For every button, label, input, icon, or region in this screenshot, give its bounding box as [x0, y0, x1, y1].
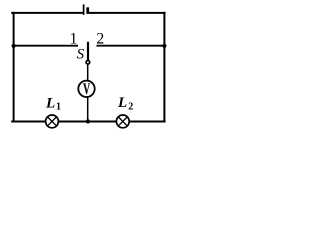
wire: right vertical	[163, 12, 165, 123]
battery B1: long plate	[83, 4, 85, 15]
switch S: pivot ring	[86, 61, 90, 65]
lamp L1: circle body	[46, 115, 59, 128]
lamp L2: cross stroke 2	[118, 117, 127, 126]
svg-text:1: 1	[70, 31, 78, 48]
lamp L2: circle body	[116, 115, 129, 128]
svg-text:L: L	[45, 96, 55, 112]
wire: middle-left to switch contact 1	[14, 45, 78, 47]
wire: voltmeter down to bottom wire	[87, 97, 89, 122]
node: junction dot right of middle wire	[162, 44, 166, 48]
voltmeter U1: circle body	[78, 81, 94, 97]
svg-text:2: 2	[96, 31, 104, 48]
wire: middle-right from switch contact 2	[97, 45, 165, 47]
svg-text:1: 1	[56, 102, 61, 113]
svg-text:2: 2	[128, 101, 133, 112]
svg-text:S: S	[77, 47, 85, 63]
node: junction dot at voltmeter branch on bottom wire	[86, 119, 90, 123]
lamp L1: cross stroke 1	[48, 117, 57, 126]
lamp L1: cross stroke 2	[48, 117, 57, 126]
svg-text:V: V	[83, 79, 90, 97]
node: junction dot left of middle wire	[12, 44, 16, 48]
wire: top-left from corner to battery	[11, 12, 83, 14]
wire: switch pivot down to voltmeter	[87, 64, 89, 81]
wire: top-right from battery to corner	[88, 12, 165, 14]
lamp L2: cross stroke 1	[118, 117, 127, 126]
svg-text:L: L	[117, 95, 127, 111]
wire: left vertical	[13, 12, 15, 123]
switch S: lever blade	[87, 42, 89, 60]
battery B1: short thick plate	[86, 7, 89, 14]
wire: bottom	[11, 121, 165, 123]
